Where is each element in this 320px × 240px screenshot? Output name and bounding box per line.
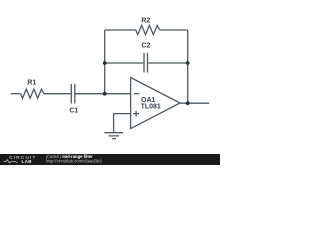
- resistor R1: [21, 89, 44, 98]
- wire feedback right vertical: [187, 30, 189, 103]
- op-amp minus sign: [134, 93, 140, 95]
- wire input stub: [11, 93, 21, 95]
- svg-text:R1: R1: [27, 80, 36, 87]
- wire non-inverting input: [114, 114, 131, 133]
- wire C1 to node A: [76, 93, 105, 95]
- wire node A to op-amp inverting input: [105, 93, 131, 95]
- wire C2 rail right: [148, 62, 188, 64]
- svg-text:C2: C2: [141, 43, 150, 50]
- wire top rail right: [160, 29, 188, 31]
- ground: [104, 133, 123, 139]
- wire C2 rail left: [105, 62, 144, 64]
- svg-text:R2: R2: [141, 18, 150, 25]
- svg-text:C1: C1: [69, 108, 78, 115]
- footer logo waveform: [4, 160, 18, 163]
- op-amp plus sign: [133, 111, 139, 117]
- op-amp U1 triangle: [131, 78, 180, 129]
- svg-text:http://circuitlab.com/c6aad3b3: http://circuitlab.com/c6aad3b3: [46, 159, 102, 164]
- node junction dot output: [186, 101, 190, 105]
- node A junction dot (input node): [103, 92, 107, 96]
- wire top rail left: [105, 29, 136, 31]
- wire feedback left vertical: [104, 30, 106, 94]
- capacitor C2: [144, 53, 148, 73]
- footer bar: [0, 154, 220, 165]
- capacitor C1: [71, 84, 75, 104]
- wire R1 to C1: [44, 93, 71, 95]
- node junction dot right C2 rail: [186, 61, 190, 65]
- wire output: [180, 102, 209, 104]
- svg-text:TL081: TL081: [141, 104, 161, 111]
- resistor R2: [136, 25, 160, 34]
- node junction dot left C2 rail: [103, 61, 107, 65]
- svg-text:LAB: LAB: [22, 159, 33, 164]
